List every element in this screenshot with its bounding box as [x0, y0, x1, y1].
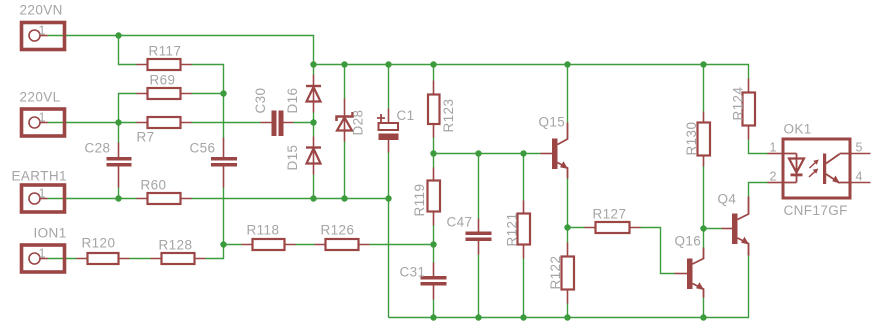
resistor R128: [151, 238, 206, 265]
wire R121 bottom to bus: [523, 259, 525, 318]
wire R7 to C30: [192, 122, 261, 124]
wire R122 bottom to bus: [567, 304, 569, 318]
wire 220VL line: [48, 122, 137, 124]
node junction at (703,64): [700, 61, 706, 67]
node junction at (433,244): [430, 241, 436, 247]
wire C1 bottom to earth node and down to bottom bus: [388, 153, 390, 318]
wire top supply bus y=64: [313, 65, 749, 79]
LED inside OK1: [782, 154, 797, 183]
optocoupler OK1 CNF17GF: [768, 122, 871, 219]
wire R122 top stub: [567, 228, 569, 243]
svg-text:C1: C1: [397, 108, 415, 123]
wire D16 anode to node: [313, 113, 315, 137]
svg-text:EARTH1: EARTH1: [12, 169, 67, 184]
node junction at (344,198): [341, 195, 347, 201]
node junction at (312,122): [310, 119, 316, 125]
node junction at (523,153): [520, 150, 526, 156]
pin 1: [768, 153, 782, 155]
node junction at (478,317): [475, 314, 481, 320]
wire C30 to diode node: [294, 122, 314, 124]
node junction 220VN at (118,35): [115, 32, 121, 38]
wire bottom bus: [389, 256, 749, 318]
svg-text:R117: R117: [149, 44, 182, 59]
wire R128 up to R118 line: [206, 245, 224, 259]
svg-text:D28: D28: [351, 110, 366, 136]
wire R130 top stub: [703, 65, 705, 112]
node junction at (567,64): [564, 61, 570, 67]
wire Q16 emitter to bus: [703, 298, 705, 318]
wire R123 bottom to base bus: [433, 138, 435, 154]
wire Q15 emitter down to R127 node: [567, 179, 569, 228]
resistor R69: [137, 73, 192, 100]
wire EARTH1 line right (R60 to C1 column): [192, 198, 389, 200]
wire R120 to R128: [130, 258, 151, 260]
svg-text:220VL: 220VL: [20, 90, 61, 105]
svg-text:R124: R124: [731, 87, 746, 121]
svg-text:R60: R60: [141, 178, 167, 193]
svg-text:1: 1: [39, 187, 46, 201]
node junction at (478,153): [475, 150, 481, 156]
svg-text:220VN: 220VN: [20, 3, 63, 18]
polarized capacitor C1: [377, 108, 415, 153]
wire Q16 collector stub: [703, 229, 705, 248]
wire C28 bottom to earth line: [118, 188, 120, 199]
wire D28 anode to earth line: [344, 142, 346, 199]
svg-text:R121: R121: [505, 213, 520, 247]
svg-text:R130: R130: [684, 122, 699, 156]
wire C47 bottom to bus: [478, 255, 480, 318]
node junction C1 top at (388,64): [385, 61, 391, 67]
resistor R120: [77, 236, 130, 265]
node junction at (567,317): [564, 314, 570, 320]
diode D15: [285, 137, 321, 175]
connector 220VN: [20, 3, 65, 50]
light arrows: [809, 161, 817, 177]
node junction R123 top at (433,64): [430, 61, 436, 67]
svg-text:1: 1: [39, 111, 46, 125]
svg-text:Q16: Q16: [675, 234, 702, 249]
svg-text:1: 1: [770, 141, 777, 155]
svg-text:R119: R119: [412, 184, 427, 217]
svg-text:5: 5: [856, 141, 863, 155]
resistor R123: [428, 81, 456, 138]
pin 5: [852, 153, 871, 155]
wire EARTH1 line left: [48, 198, 137, 200]
wire ION1 to R120: [48, 258, 77, 260]
resistor R130: [684, 112, 710, 167]
wire R69 left leg down to 220VL node: [119, 94, 137, 123]
svg-text:R123: R123: [441, 99, 456, 133]
wire D16 cathode stub: [313, 65, 315, 75]
wire R123 top stub: [433, 65, 435, 81]
connector 220VL: [20, 90, 65, 137]
svg-text:4: 4: [856, 170, 863, 184]
svg-text:R126: R126: [321, 223, 355, 238]
wire C31 bottom to bus: [433, 300, 435, 318]
resistor R60: [137, 178, 192, 205]
node junction D28 top at (344,64): [341, 61, 347, 67]
svg-text:R120: R120: [82, 236, 116, 251]
svg-text:R128: R128: [159, 238, 193, 253]
node junction D16 top at (312,64): [310, 61, 316, 67]
pin 4: [852, 182, 871, 184]
wire R119 top stub: [433, 154, 435, 168]
wire Q15 collector to top bus: [567, 65, 569, 123]
capacitor C31: [400, 263, 447, 300]
wire C31 top stub: [433, 245, 435, 263]
wire Q4 base stub: [704, 228, 722, 230]
zener diode D28: [337, 99, 366, 142]
wire node (223,93) down to C56: [223, 94, 225, 138]
svg-text:R7: R7: [137, 130, 155, 145]
wire R69 right to node: [192, 93, 224, 95]
svg-text:R69: R69: [150, 73, 176, 88]
capacitor C47: [447, 215, 492, 255]
wire C1 top stub: [388, 65, 390, 109]
svg-text:1: 1: [39, 247, 46, 261]
node junction at (223,93): [220, 90, 226, 96]
wire C47 top stub: [478, 154, 480, 219]
svg-text:D16: D16: [285, 88, 300, 114]
wire R127 left stub: [568, 227, 585, 229]
node junction at (388,198): [385, 195, 391, 201]
wire C56 bottom down through earth line to R118 node: [223, 188, 225, 245]
connector EARTH1: [12, 169, 67, 213]
wire R119 bottom to node: [433, 226, 435, 245]
wire Q4 collector to OK1 pin 2: [749, 183, 768, 197]
svg-text:C47: C47: [447, 215, 473, 230]
wire R117 output to R69 junction: [192, 65, 224, 94]
transistor Q16: [675, 234, 705, 298]
svg-text:R118: R118: [247, 223, 280, 238]
svg-text:C56: C56: [190, 141, 216, 156]
wire C28 top lead: [118, 123, 120, 143]
svg-text:C31: C31: [400, 265, 426, 280]
svg-text:2: 2: [770, 170, 777, 184]
node junction at (523,317): [520, 314, 526, 320]
node junction at (567,227): [564, 224, 570, 230]
connector ION1: [22, 226, 67, 273]
resistor R121: [505, 201, 531, 259]
capacitor C56: [190, 138, 238, 188]
transistor Q4: [718, 192, 750, 256]
svg-text:ION1: ION1: [34, 226, 67, 241]
transistor Q15: [539, 115, 569, 179]
node junction 220VL at (118,122): [115, 119, 121, 125]
resistor R127: [585, 207, 641, 234]
node junction at (312,198): [310, 195, 316, 201]
resistor R122: [548, 243, 574, 304]
phototransistor inside OK1: [823, 154, 826, 185]
capacitor C30: [253, 88, 294, 136]
resistor R117: [137, 44, 192, 71]
wire net 220VN horizontal: [48, 36, 314, 65]
wire R127 right to Q16 base: [641, 228, 675, 274]
resistor R124: [731, 79, 756, 140]
svg-text:R127: R127: [593, 207, 627, 222]
resistor R126: [315, 223, 370, 251]
wire R118 to R126: [296, 244, 315, 246]
wire base bus y=153: [434, 153, 541, 155]
wire R124 bottom to OK1 pin 1: [749, 140, 768, 154]
svg-text:CNF17GF: CNF17GF: [784, 203, 848, 218]
capacitor C28: [85, 141, 132, 188]
wire D28 top stub: [344, 65, 346, 99]
node junction at (433,317): [430, 314, 436, 320]
diode D16: [285, 75, 321, 114]
svg-text:C30: C30: [253, 88, 268, 114]
node junction at (223,244): [220, 241, 226, 247]
wire R126 to R119 node: [370, 244, 434, 246]
svg-text:C28: C28: [85, 141, 111, 156]
node junction at (703,317): [700, 314, 706, 320]
node junction at (433,153): [430, 150, 436, 156]
resistor R118: [242, 223, 296, 251]
pin 2: [768, 182, 782, 184]
wire R121 top stub: [523, 154, 525, 201]
resistor R119: [412, 168, 440, 226]
svg-text:Q4: Q4: [718, 192, 737, 207]
svg-text:1: 1: [39, 24, 46, 38]
wire D15 anode to earth line: [313, 175, 315, 199]
svg-text:OK1: OK1: [784, 122, 812, 137]
svg-text:Q15: Q15: [539, 115, 566, 130]
wire R130 bottom to Q16 collector node: [703, 167, 705, 229]
node junction at (703,228): [700, 225, 706, 231]
svg-text:R122: R122: [548, 256, 563, 290]
resistor R7: [137, 117, 192, 145]
wire node to R118: [224, 244, 242, 246]
svg-text:D15: D15: [285, 145, 300, 171]
node junction EARTH at (118,198): [115, 195, 121, 201]
